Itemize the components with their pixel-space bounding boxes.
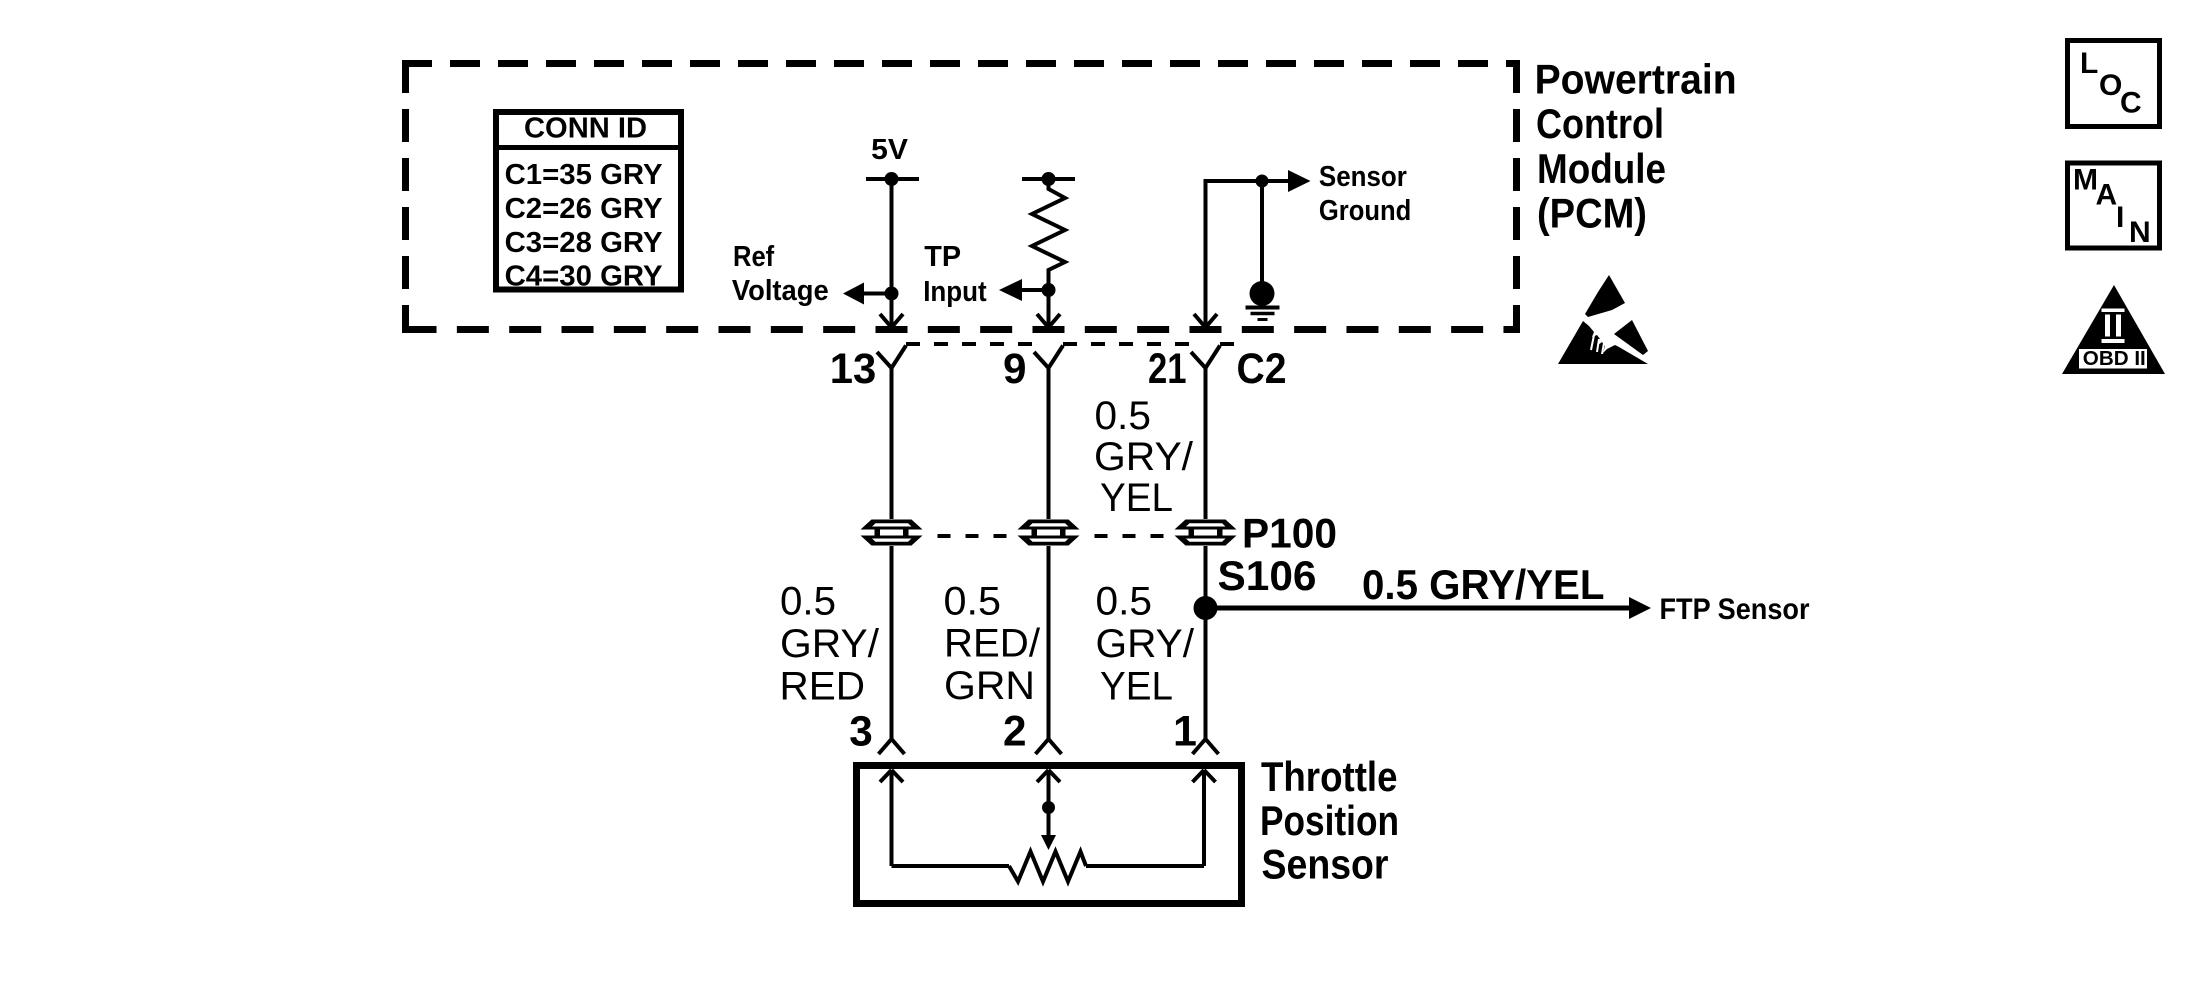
svg-text:13: 13 <box>830 345 877 393</box>
svg-text:C4=30 GRY: C4=30 GRY <box>505 261 663 293</box>
svg-text:0.5 GRY/YEL: 0.5 GRY/YEL <box>1362 561 1605 608</box>
svg-text:C: C <box>2120 87 2142 120</box>
svg-text:Voltage: Voltage <box>732 275 829 307</box>
svg-text:YEL: YEL <box>1100 665 1173 709</box>
svg-text:1: 1 <box>1173 708 1197 756</box>
svg-text:0.5: 0.5 <box>1096 580 1153 624</box>
svg-text:I: I <box>2116 201 2124 234</box>
svg-text:0.5: 0.5 <box>944 580 1002 624</box>
svg-text:Control: Control <box>1536 100 1664 147</box>
svg-text:Position: Position <box>1260 797 1399 844</box>
svg-text:Throttle: Throttle <box>1261 753 1398 800</box>
svg-text:GRY/: GRY/ <box>1094 435 1194 479</box>
svg-text:C3=28 GRY: C3=28 GRY <box>505 227 663 259</box>
svg-text:9: 9 <box>1003 345 1027 393</box>
svg-text:S106: S106 <box>1218 552 1317 599</box>
svg-text:M: M <box>2073 164 2098 197</box>
svg-text:Module: Module <box>1537 145 1666 192</box>
svg-text:Sensor: Sensor <box>1319 161 1407 193</box>
svg-text:Sensor: Sensor <box>1262 841 1389 888</box>
svg-text:CONN ID: CONN ID <box>524 113 647 145</box>
svg-text:21: 21 <box>1148 345 1187 393</box>
svg-text:Ground: Ground <box>1319 195 1411 227</box>
svg-text:Ref: Ref <box>733 241 774 273</box>
svg-text:GRY/: GRY/ <box>780 622 880 666</box>
svg-text:O: O <box>2099 69 2122 102</box>
svg-text:2: 2 <box>1003 708 1027 756</box>
svg-text:3: 3 <box>849 708 873 756</box>
svg-text:(PCM): (PCM) <box>1537 190 1647 237</box>
svg-text:0.5: 0.5 <box>1095 394 1151 438</box>
svg-text:Input: Input <box>923 276 987 308</box>
svg-text:C2: C2 <box>1237 345 1287 393</box>
svg-text:GRN: GRN <box>944 664 1035 708</box>
svg-text:A: A <box>2096 179 2118 212</box>
svg-text:L: L <box>2080 47 2098 80</box>
svg-text:Powertrain: Powertrain <box>1535 56 1737 103</box>
svg-text:TP: TP <box>924 241 961 273</box>
svg-text:C1=35 GRY: C1=35 GRY <box>505 159 663 191</box>
svg-text:P100: P100 <box>1242 510 1337 557</box>
svg-text:RED: RED <box>780 665 866 709</box>
svg-text:N: N <box>2129 216 2151 249</box>
svg-text:FTP Sensor: FTP Sensor <box>1660 593 1810 626</box>
svg-text:0.5: 0.5 <box>780 580 836 624</box>
svg-text:GRY/: GRY/ <box>1096 622 1195 666</box>
svg-text:RED/: RED/ <box>944 622 1041 666</box>
svg-text:OBD II: OBD II <box>2083 348 2146 370</box>
svg-text:5V: 5V <box>871 134 908 166</box>
svg-text:YEL: YEL <box>1100 476 1173 520</box>
svg-text:C2=26 GRY: C2=26 GRY <box>505 193 663 225</box>
